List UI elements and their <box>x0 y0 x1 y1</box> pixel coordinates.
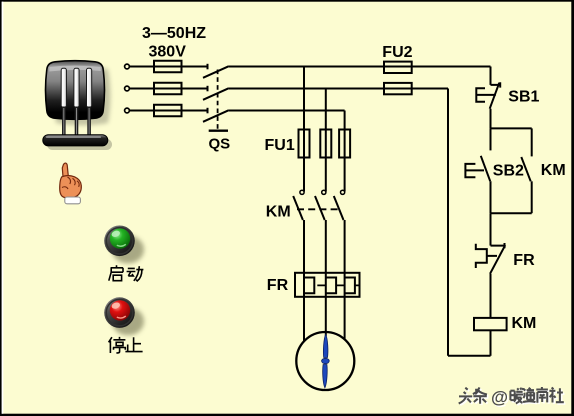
wire phase L1 horizontal <box>130 66 208 68</box>
switch QS pole 3 <box>203 108 229 122</box>
icon pointing hand <box>60 163 82 204</box>
wire drop pole C <box>344 111 346 192</box>
svg-text:FU1: FU1 <box>265 137 295 154</box>
wire bottom return <box>448 355 491 357</box>
svg-text:FR: FR <box>267 277 289 294</box>
wire drop pole B <box>325 89 327 192</box>
switch QS linkage dashed <box>217 70 219 130</box>
switch QS pole 1 <box>203 64 229 78</box>
terminal L1 <box>125 64 130 69</box>
wire branch bottom <box>491 212 532 214</box>
relay FR box <box>295 273 360 297</box>
motor propeller <box>322 334 330 388</box>
terminal L3 <box>125 108 130 113</box>
icon knife switch shadow <box>47 67 112 150</box>
terminal L2 <box>125 86 130 91</box>
contactor KM linkage dashed <box>297 208 341 210</box>
contactor KM pole C <box>334 190 345 220</box>
wire phase L2 horizontal <box>130 88 208 90</box>
svg-text:KM: KM <box>512 315 537 332</box>
wires: three phase supply lines <box>130 67 208 111</box>
button stop red <box>104 297 144 335</box>
wire pole B down <box>325 220 327 336</box>
wire pole A down <box>303 220 305 342</box>
button SB2 contact <box>465 128 490 213</box>
svg-text:FR: FR <box>513 252 535 269</box>
relay FR heater B <box>326 278 336 294</box>
wire coil down <box>490 330 492 356</box>
wire drop pole A <box>303 67 305 192</box>
wire L2 to right <box>229 88 448 90</box>
fuse input 3 <box>154 105 182 117</box>
switch QS handle bar <box>209 129 228 131</box>
svg-text:KM: KM <box>541 162 566 179</box>
contact KM aux <box>521 128 531 213</box>
svg-text:KM: KM <box>266 204 291 221</box>
contactor KM pole B <box>315 190 326 220</box>
contact FR NC <box>476 243 505 274</box>
contactor KM pole A <box>293 190 304 220</box>
watermark toutiao @nuantongnanshe <box>459 387 566 408</box>
wire L3 to drop <box>229 110 345 112</box>
wire control main drop <box>490 67 492 85</box>
svg-text:SB1: SB1 <box>508 89 539 106</box>
relay FR heater C <box>345 278 355 294</box>
coil KM <box>474 318 507 330</box>
svg-text:QS: QS <box>209 136 231 153</box>
fuse FU2 upper <box>384 62 412 73</box>
wire pole C down <box>344 220 346 340</box>
fuse FU2 lower <box>384 83 412 94</box>
label tingzhi (stop) <box>109 337 143 353</box>
svg-text:@: @ <box>491 387 508 407</box>
motor wire stub <box>325 332 327 336</box>
fuse FU1 pole B <box>320 130 331 158</box>
icon knife switch base <box>43 135 108 146</box>
wire SB1 to branch <box>490 109 492 129</box>
button start green <box>104 226 144 264</box>
motor M circle <box>296 332 354 390</box>
wire branch top <box>491 127 532 129</box>
svg-text:FU2: FU2 <box>382 44 412 61</box>
wire phase L3 horizontal <box>130 110 208 112</box>
wire L1 to right <box>229 66 491 68</box>
svg-text:3—50HZ: 3—50HZ <box>142 25 206 42</box>
label qidong (start) <box>109 265 144 281</box>
wire to FR contact <box>490 213 492 245</box>
icon knife switch prongs <box>61 68 91 135</box>
fuse FU1 pole A <box>299 130 310 158</box>
icon knife switch body <box>46 61 105 120</box>
relay FR linkage dashes <box>317 284 359 286</box>
svg-text:SB2: SB2 <box>493 163 524 180</box>
fuse input 1 <box>154 61 182 73</box>
button SB1 contact <box>476 82 500 109</box>
fuse input 2 <box>154 83 182 95</box>
relay FR heater A <box>304 278 314 294</box>
fuse FU1 pole C <box>339 130 350 158</box>
wire left return vertical <box>447 89 449 356</box>
switch QS pole 2 <box>203 86 229 100</box>
wire FR to coil <box>490 274 492 318</box>
svg-text:380V: 380V <box>149 44 187 61</box>
